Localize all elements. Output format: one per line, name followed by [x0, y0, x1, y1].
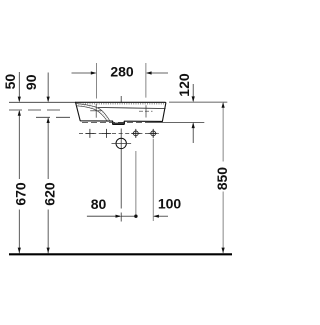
wall reference line at rim level (left) [9, 101, 76, 103]
svg-text:670: 670 [13, 182, 29, 206]
basin bottom extension line right [150, 121, 204, 123]
floor line [9, 253, 232, 255]
hidden bottom line under basin [82, 121, 150, 123]
svg-text:120: 120 [176, 73, 192, 97]
mounting hole cross 1 [85, 129, 94, 138]
dimension 120 upper arrow [192, 84, 195, 102]
svg-text:100: 100 [158, 196, 182, 212]
dimension 280 left arrow [72, 71, 97, 74]
supply hole cross 4 with circle [149, 129, 158, 138]
drain circle [116, 138, 126, 148]
dimension line 620 with arrows [47, 117, 50, 253]
washbasin body outline (side view) [76, 102, 166, 124]
dimension 80 arrow [87, 215, 121, 218]
dimension line 850 with arrows [222, 102, 225, 253]
dimension line 670 with arrows [18, 110, 21, 253]
basin section cut hatch band [76, 103, 110, 121]
dimension 280 right arrow [146, 71, 168, 74]
drain circle horizontal crosshair [112, 142, 132, 144]
rim level extension line right [169, 101, 227, 103]
dotted inner rim line [78, 103, 164, 105]
basin bowl section curve inner [76, 106, 107, 121]
dimension 280 left extension line [96, 63, 98, 99]
supply hole cross 3 with circle [131, 129, 140, 138]
svg-text:850: 850 [214, 167, 230, 191]
dimension 90 down arrow [47, 73, 50, 103]
basin bowl section curve outer [76, 103, 110, 121]
dimension 280 right extension line [145, 63, 147, 98]
dimension 50 down arrow [18, 72, 21, 102]
dashed line through mounting holes [79, 132, 159, 134]
mounting hole cross 2 [102, 129, 111, 138]
dimension 120 lower arrow [192, 122, 195, 143]
dimension 80-100 connecting segment with dot [121, 215, 136, 217]
basin drain boss [113, 121, 125, 124]
extension line from supply hole 3 [135, 151, 137, 216]
tap hole cross left [90, 104, 101, 118]
svg-text:620: 620 [42, 182, 58, 206]
svg-text:280: 280 [110, 64, 134, 80]
svg-text:50: 50 [2, 74, 18, 90]
basin inner rim ledge line [98, 108, 166, 109]
svg-text:90: 90 [23, 74, 39, 90]
dimension 100 arrow [153, 215, 168, 218]
dashed reference line A (50 below rim) [9, 109, 66, 111]
dashed reference line B (90 below rim) [36, 116, 74, 118]
extension line from supply hole 4 [152, 139, 154, 221]
svg-text:80: 80 [91, 196, 107, 212]
tap hole cross right [139, 105, 153, 117]
vertical centerline of basin [120, 96, 122, 222]
